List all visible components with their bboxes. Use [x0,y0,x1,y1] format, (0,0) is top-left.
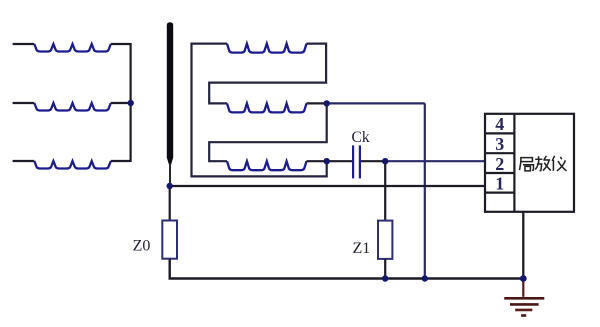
node: bus junction under Z1 [382,275,388,281]
ground bar 1 [504,297,544,300]
inductor L3 (primary phase C) [34,161,111,169]
wire: top section right + return to middle section [209,44,326,104]
wire: bottom section to tap node B [307,160,327,162]
node B: bottom tap [324,158,330,164]
label 局放仪 char 仪 [552,156,566,171]
terminal cell divider 1/blank [485,192,514,194]
svg-text:Z0: Z0 [133,238,151,255]
ground bar 4 [521,314,526,317]
terminal cell divider 2/1 [485,172,514,174]
label 局放仪 (PD detector) char 局 [520,158,534,171]
wire: Z1 to bus [384,259,386,279]
inductor W1 (secondary top section) [227,44,307,53]
capacitor Ck plate 1 [352,145,354,178]
terminal strip divider [513,114,515,212]
node: primary star point [128,100,134,106]
svg-text:3: 3 [495,134,504,154]
capacitor Ck plate 2 [359,145,361,178]
wire: phase C lead [13,160,35,162]
wire: core tail to neutral node [169,163,171,186]
svg-text:Z1: Z1 [353,240,371,257]
resistor Z1 [378,221,392,259]
wire: neutral down to Z0 [169,186,171,221]
wire: phase C to common [111,160,131,162]
core bar [167,22,173,165]
svg-text:4: 4 [495,114,504,134]
wire: phase B to common [111,102,131,104]
label 局放仪 char 放 [535,156,551,171]
wire: node C to terminal 2 [385,160,485,162]
node C [382,158,388,164]
inductor L2 (primary phase B) [34,103,111,111]
wire: vertical drop to bus [424,103,426,278]
ground bar 3 [515,309,532,312]
wire: box to ground bus [522,212,524,279]
node: bus junction under measuring vertical [422,275,428,281]
wire: secondary left outline [192,44,327,177]
wire: tap B to Ck [327,160,352,162]
wire: phase B lead [13,102,35,104]
wire: Z0 to bus + ground bus [170,259,524,279]
inductor W3 (secondary bottom section) [227,161,307,170]
node: ground junction [520,275,527,282]
resistor Z0 [162,221,177,259]
ground stem [522,280,524,297]
svg-text:1: 1 [495,173,504,193]
node: neutral junction [167,183,173,189]
wire: node C down to Z1 [384,161,386,220]
wire: tap A to measuring branch vertical [327,102,425,104]
ground bar 2 [510,303,539,306]
wire: Ck to node C [361,160,385,162]
inductor L1 (primary phase A) [34,44,111,52]
instrument box outline [485,114,574,212]
svg-text:Ck: Ck [352,129,370,146]
node A: middle tap [324,100,330,106]
terminal cell divider 3/2 [485,152,514,154]
svg-text:2: 2 [495,154,504,174]
inductor W2 (secondary middle section) [227,103,307,112]
wire: phase A lead [13,43,35,45]
wire: neutral to terminal 1 [170,185,485,187]
wire: tap A down + return to bottom section [209,103,327,161]
wire: phase A to common [111,43,131,45]
terminal cell divider 4/3 [485,132,514,134]
wire: primary common vertical [130,43,132,162]
wire: middle section to tap node A [307,102,327,104]
